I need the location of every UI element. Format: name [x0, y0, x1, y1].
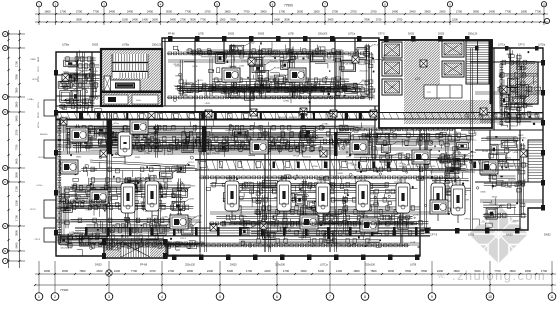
svg-text:L07Ba: L07Ba — [279, 229, 286, 231]
svg-text:CF7-5: CF7-5 — [167, 154, 174, 156]
left margin rotated labels — [38, 56, 40, 128]
svg-text:DN25: DN25 — [90, 103, 96, 105]
svg-text:DN32: DN32 — [343, 211, 349, 213]
svg-text:L07B: L07B — [239, 65, 244, 67]
svg-text:7800: 7800 — [405, 269, 412, 273]
fan at 250,109 — [250, 109, 257, 116]
svg-text:7700: 7700 — [15, 144, 19, 150]
top wall column blocks — [168, 36, 539, 51]
svg-text:250x120: 250x120 — [185, 263, 196, 267]
svg-text:2400: 2400 — [392, 9, 399, 13]
svg-text:5400: 5400 — [15, 115, 19, 121]
svg-text:CF7-5: CF7-5 — [188, 162, 195, 164]
svg-text:DN25: DN25 — [159, 205, 165, 207]
left dimension ticks and values — [8, 33, 21, 262]
svg-text:L07B: L07B — [288, 33, 294, 36]
top dimension ticks and values row2 — [38, 17, 545, 23]
svg-text:DN25: DN25 — [122, 219, 128, 221]
left margin leader texts — [28, 59, 49, 241]
svg-text:CF7-5: CF7-5 — [119, 129, 126, 132]
fan at 148,112 — [148, 112, 155, 119]
svg-text:320x200: 320x200 — [213, 58, 222, 60]
svg-text:1800: 1800 — [353, 269, 360, 273]
fan at 60,118 — [60, 118, 67, 125]
clutter zone 430,130 — [430, 132, 479, 225]
pipe band lower — [75, 227, 430, 236]
clutter zone 200,174 — [201, 175, 431, 249]
svg-text:L07Ba: L07Ba — [225, 130, 232, 132]
svg-text:L07Ba: L07Ba — [122, 44, 130, 47]
svg-text:L07B: L07B — [410, 242, 415, 244]
svg-text:250x120: 250x120 — [62, 239, 71, 241]
svg-text:DN32: DN32 — [76, 157, 82, 159]
fan at 260,222 — [260, 222, 267, 229]
svg-text:320x200: 320x200 — [397, 141, 406, 143]
elevator cell 5 — [442, 61, 464, 77]
svg-text:2600: 2600 — [152, 17, 158, 21]
svg-text:DN32: DN32 — [523, 68, 529, 70]
svg-text:1500: 1500 — [220, 17, 226, 21]
AHU at 90,190 — [90, 190, 108, 204]
svg-text:D: D — [4, 110, 6, 114]
fan at 320,150 — [320, 150, 327, 157]
svg-text:11: 11 — [550, 295, 554, 299]
AHU at 300,215 — [300, 215, 318, 229]
svg-text:L07B: L07B — [359, 58, 364, 60]
fan at 330,110 — [330, 110, 337, 117]
svg-text:250x120: 250x120 — [278, 117, 287, 119]
fan at 205,110 — [205, 110, 212, 117]
svg-text:L07a: L07a — [136, 100, 142, 102]
svg-text:7800: 7800 — [15, 87, 19, 93]
svg-text:1400: 1400 — [336, 269, 343, 273]
svg-text:L07Ba: L07Ba — [444, 166, 451, 168]
svg-text:320x200: 320x200 — [348, 233, 357, 235]
svg-text:L07B: L07B — [197, 216, 202, 218]
fan at 100,150 — [100, 150, 107, 157]
svg-text:DN25: DN25 — [273, 219, 279, 221]
bottom stair hatch — [105, 241, 166, 257]
svg-text:250x120: 250x120 — [272, 80, 281, 82]
top wall inner line — [162, 41, 377, 43]
svg-text:320x200: 320x200 — [174, 86, 183, 88]
svg-text:L07B: L07B — [532, 82, 537, 84]
svg-text:250x120: 250x120 — [505, 166, 514, 168]
svg-text:CF7-5: CF7-5 — [378, 33, 385, 36]
secondary corridor duct — [195, 160, 520, 171]
svg-text:DN32: DN32 — [130, 228, 136, 230]
svg-text:CF7-5: CF7-5 — [293, 58, 300, 60]
svg-text:L07Ba: L07Ba — [470, 152, 477, 154]
svg-text:320x200: 320x200 — [524, 105, 533, 107]
svg-text:DN32: DN32 — [185, 84, 191, 86]
svg-text:C: C — [4, 95, 6, 99]
svg-text:FP-68: FP-68 — [482, 138, 489, 140]
svg-text:5400: 5400 — [227, 269, 234, 273]
svg-text:DN32: DN32 — [249, 42, 255, 44]
svg-text:320x200: 320x200 — [80, 71, 89, 73]
svg-text:L07B: L07B — [189, 198, 194, 200]
fan at 480,108 — [480, 108, 487, 115]
interior wall horizontals — [56, 62, 543, 236]
svg-text:H: H — [4, 249, 6, 253]
core right heavy wall — [490, 40, 493, 104]
svg-text:B: B — [4, 46, 6, 50]
svg-text:CF7-5: CF7-5 — [509, 85, 516, 87]
svg-text:3: 3 — [108, 295, 110, 299]
AHU at 430,200 — [430, 200, 448, 214]
bottom stair end columns — [102, 239, 106, 245]
svg-text:CF7-5: CF7-5 — [317, 180, 324, 183]
AHU at 60,160 — [60, 160, 78, 174]
watermark logo — [469, 205, 528, 264]
fan at 420,60 — [420, 60, 427, 67]
right stair treads — [528, 140, 543, 182]
svg-text:5: 5 — [219, 295, 221, 299]
svg-text:L07Da: L07Da — [502, 184, 509, 186]
svg-text:320x200: 320x200 — [80, 57, 89, 59]
svg-text:1: 1 — [38, 295, 40, 299]
svg-text:DN32: DN32 — [330, 84, 336, 86]
AHU at 222,68 — [222, 68, 240, 82]
svg-text:DN25: DN25 — [354, 130, 360, 132]
svg-text:3000: 3000 — [166, 9, 173, 13]
fan at 248,58 — [248, 58, 255, 65]
svg-text:FP-68: FP-68 — [38, 76, 40, 82]
svg-text:DN32: DN32 — [544, 233, 551, 237]
AHU at 360,218 — [360, 218, 378, 232]
svg-text:2600: 2600 — [15, 101, 19, 107]
top dimension ticks and values row1 — [38, 9, 545, 15]
stair core hatch — [102, 50, 161, 105]
svg-text:DN32: DN32 — [201, 228, 207, 230]
svg-text:7: 7 — [329, 295, 331, 299]
stair core machine room — [110, 80, 140, 91]
svg-text:DN25: DN25 — [480, 192, 486, 194]
svg-text:CF7-5: CF7-5 — [372, 45, 379, 47]
svg-text:2400: 2400 — [328, 17, 334, 21]
svg-text:7800: 7800 — [230, 17, 236, 21]
svg-text:DN32: DN32 — [132, 249, 138, 251]
interior wall verticals — [56, 38, 520, 252]
fan coil unit at 152 — [145, 175, 159, 219]
svg-text:L07Ba: L07Ba — [177, 169, 184, 171]
svg-text:CF7-5: CF7-5 — [518, 44, 525, 47]
svg-text:1800: 1800 — [187, 269, 194, 273]
fan coil unit at 438 — [431, 177, 445, 221]
elevator core walls — [379, 40, 492, 128]
svg-text:7700: 7700 — [494, 269, 501, 273]
svg-text:FP-68: FP-68 — [38, 112, 40, 118]
svg-text:DN32: DN32 — [338, 173, 344, 175]
svg-text:1500: 1500 — [300, 269, 307, 273]
fan at 500,86 — [500, 86, 507, 93]
svg-text:7700: 7700 — [185, 9, 192, 13]
bottom wall column blocks — [172, 228, 520, 260]
svg-text:CF7-5: CF7-5 — [452, 182, 459, 185]
svg-text:L07B: L07B — [320, 128, 325, 130]
svg-text:L07B: L07B — [231, 140, 236, 142]
svg-text:1700: 1700 — [279, 9, 286, 13]
elevator lobby hatch — [404, 41, 491, 124]
AHU at 350,140 — [350, 140, 368, 154]
AHU at 250,140 — [250, 140, 268, 154]
svg-text:CF7-5: CF7-5 — [506, 74, 513, 76]
clutter zone 58,55 — [58, 50, 101, 115]
svg-text:L07Ba: L07Ba — [135, 220, 142, 222]
fan at 352,56 — [352, 56, 359, 63]
svg-text:1500: 1500 — [122, 17, 128, 21]
svg-text:CF7-5: CF7-5 — [397, 180, 404, 183]
svg-text:L07Da: L07Da — [538, 44, 546, 47]
svg-text:320x200: 320x200 — [188, 216, 197, 218]
svg-text:FP-68: FP-68 — [448, 140, 455, 142]
svg-text:L07Da: L07Da — [387, 208, 394, 210]
svg-text:DN32: DN32 — [513, 92, 519, 94]
svg-text:DN25: DN25 — [92, 44, 99, 47]
svg-text:5400: 5400 — [318, 269, 325, 273]
clutter zone 336,130 — [338, 128, 478, 182]
svg-text:L07Ba: L07Ba — [456, 166, 463, 168]
svg-text:3900: 3900 — [424, 9, 431, 13]
svg-text:3900: 3900 — [473, 9, 480, 13]
svg-text:1700: 1700 — [370, 9, 377, 13]
svg-text:L07Ca: L07Ca — [37, 185, 44, 187]
svg-text:L07Da: L07Da — [464, 172, 471, 174]
svg-text:7700: 7700 — [131, 269, 138, 273]
svg-text:2400: 2400 — [114, 269, 121, 273]
svg-text:L07B: L07B — [468, 233, 474, 237]
svg-text:CF7-5: CF7-5 — [35, 239, 41, 241]
svg-text:CF7-5: CF7-5 — [58, 100, 65, 102]
fan coil unit at 363 — [356, 175, 370, 219]
svg-text:L07Ba: L07Ba — [69, 232, 76, 234]
svg-text:CF7-5: CF7-5 — [197, 80, 204, 82]
svg-text:10: 10 — [488, 295, 492, 299]
fan at 300,108 — [300, 108, 307, 115]
svg-text:7700: 7700 — [200, 17, 206, 21]
svg-text:1400: 1400 — [142, 17, 148, 21]
svg-text:250x120: 250x120 — [269, 61, 278, 63]
svg-text:FP-68: FP-68 — [482, 151, 489, 153]
svg-text:1800: 1800 — [44, 269, 51, 273]
svg-text:5400: 5400 — [170, 17, 176, 21]
svg-text:2400: 2400 — [409, 9, 416, 13]
core 2 stair treads — [466, 41, 489, 84]
svg-text:L07B: L07B — [145, 229, 150, 231]
fan coil unit at 284 — [277, 175, 291, 219]
svg-text:3900: 3900 — [76, 17, 82, 21]
svg-text:L07Ca: L07Ca — [172, 166, 179, 168]
svg-text:DN32: DN32 — [485, 218, 491, 220]
svg-text:2600: 2600 — [439, 9, 446, 13]
svg-text:320x200: 320x200 — [40, 134, 49, 136]
hatched shaft right — [510, 62, 538, 104]
svg-text:L07B: L07B — [283, 214, 288, 216]
svg-text:L07B: L07B — [122, 226, 127, 228]
svg-text:1700: 1700 — [283, 269, 290, 273]
svg-text:DN25: DN25 — [92, 169, 98, 171]
svg-text:L07Ca: L07Ca — [264, 233, 271, 235]
svg-text:1700: 1700 — [15, 61, 19, 67]
svg-text:DN32: DN32 — [269, 76, 275, 78]
svg-text:2400: 2400 — [127, 9, 134, 13]
svg-text:1800: 1800 — [224, 9, 231, 13]
svg-text:DN32: DN32 — [30, 59, 36, 61]
svg-text:2400: 2400 — [264, 269, 271, 273]
AHU at 288,68 — [288, 68, 306, 82]
svg-text:1700: 1700 — [541, 269, 548, 273]
svg-text:L07Ca: L07Ca — [339, 141, 346, 143]
svg-text:1500: 1500 — [452, 17, 458, 21]
svg-text:DN32: DN32 — [38, 56, 40, 62]
svg-text:L07Ba: L07Ba — [322, 124, 329, 126]
top dimension chain line 1 — [35, 13, 548, 15]
left dimension chain line 1 — [8, 30, 10, 268]
svg-text:1700: 1700 — [15, 215, 19, 221]
svg-text:3000: 3000 — [284, 17, 290, 21]
svg-text:DN25: DN25 — [348, 163, 354, 165]
svg-text:250x120: 250x120 — [415, 166, 424, 168]
svg-text:250x120: 250x120 — [510, 126, 519, 128]
elevator cell 3 — [382, 79, 402, 95]
svg-text:G: G — [4, 224, 6, 228]
branch pipes — [56, 60, 543, 245]
bottom grid bubbles — [35, 261, 556, 300]
svg-text:1800: 1800 — [44, 9, 51, 13]
svg-text:L07Ba: L07Ba — [77, 79, 84, 81]
svg-text:250x120: 250x120 — [427, 166, 436, 168]
svg-text:7800: 7800 — [15, 74, 19, 80]
bottom stair treads — [121, 242, 150, 257]
svg-text:FP-68: FP-68 — [390, 160, 397, 162]
svg-text:L07B: L07B — [90, 62, 95, 64]
svg-text:7700: 7700 — [505, 9, 512, 13]
svg-text:2400: 2400 — [132, 17, 138, 21]
clutter zone 496,50 — [497, 50, 541, 127]
svg-text:2600: 2600 — [96, 269, 103, 273]
svg-text:L07Ca: L07Ca — [241, 61, 248, 63]
elevator cell 4 — [442, 41, 464, 57]
stair core walls — [101, 49, 162, 106]
svg-text:CF7-5: CF7-5 — [330, 192, 337, 194]
left dimension chain line 2 — [19, 30, 21, 268]
svg-text:L07Ca: L07Ca — [530, 94, 537, 96]
svg-text:320x200: 320x200 — [60, 248, 69, 250]
svg-text:250x120: 250x120 — [360, 71, 369, 73]
svg-text:DN25: DN25 — [358, 127, 364, 129]
svg-text:DN32: DN32 — [506, 95, 512, 97]
svg-text:L07Ca: L07Ca — [38, 101, 40, 108]
svg-text:1800: 1800 — [525, 269, 532, 273]
svg-text:7800: 7800 — [370, 269, 377, 273]
svg-text:6: 6 — [276, 295, 278, 299]
svg-text:FP-68: FP-68 — [140, 263, 148, 267]
left grid bubbles — [3, 31, 25, 263]
svg-text:7800: 7800 — [79, 269, 86, 273]
svg-text:A07: A07 — [176, 249, 181, 252]
svg-text:L07Ba: L07Ba — [506, 187, 513, 189]
right wall column blocks — [541, 60, 545, 211]
svg-text:320x200: 320x200 — [243, 182, 252, 184]
svg-text:9: 9 — [431, 295, 433, 299]
svg-text:FP-68: FP-68 — [301, 190, 308, 192]
svg-text:2600: 2600 — [297, 9, 304, 13]
svg-text:L07B: L07B — [69, 207, 74, 209]
diffuser rows — [167, 52, 366, 55]
svg-text:2700: 2700 — [332, 9, 339, 13]
svg-text:DN32: DN32 — [514, 221, 520, 223]
svg-text:2700: 2700 — [168, 269, 175, 273]
svg-text:L07Ba: L07Ba — [241, 216, 248, 218]
svg-text:DN25: DN25 — [506, 233, 513, 237]
svg-text:L07B: L07B — [94, 233, 99, 235]
svg-text:1700: 1700 — [60, 9, 67, 13]
svg-text:320x200: 320x200 — [362, 80, 371, 82]
svg-text:7800: 7800 — [421, 269, 428, 273]
svg-text:2400: 2400 — [489, 9, 496, 13]
svg-text:L07Ba: L07Ba — [140, 151, 147, 153]
svg-text:L07Ba: L07Ba — [28, 99, 35, 101]
fan at 370,110 — [370, 110, 377, 117]
svg-text:DN25: DN25 — [492, 196, 498, 198]
svg-text:CF7-5: CF7-5 — [471, 140, 478, 142]
svg-text:CF7-5: CF7-5 — [32, 79, 38, 81]
clutter zone 58,162 — [59, 162, 203, 256]
svg-text:DN32: DN32 — [408, 33, 415, 36]
svg-text:3900: 3900 — [15, 230, 19, 236]
fan coil unit mid-left — [118, 126, 132, 164]
svg-text:CF7-5: CF7-5 — [122, 180, 129, 183]
svg-text:320x200: 320x200 — [308, 191, 317, 193]
svg-text:2700: 2700 — [76, 9, 83, 13]
svg-text:77900: 77900 — [60, 288, 69, 292]
svg-text:A: A — [4, 32, 6, 36]
svg-text:L07Ba: L07Ba — [62, 44, 70, 47]
elevator cell 2 — [382, 60, 402, 76]
clutter zone 476,132 — [476, 135, 527, 227]
pipe risers — [83, 48, 473, 252]
stair treads core 1 — [112, 54, 148, 78]
svg-text:DN25: DN25 — [197, 222, 203, 224]
fan coil unit at 323 — [316, 177, 330, 221]
svg-text:FP-68: FP-68 — [464, 181, 471, 183]
svg-text:77900: 77900 — [284, 4, 293, 8]
svg-text:320x200: 320x200 — [365, 263, 376, 267]
svg-text:L07B: L07B — [395, 130, 400, 132]
svg-text:5400: 5400 — [474, 269, 481, 273]
bottom wall labels — [95, 233, 551, 267]
svg-text:DN25: DN25 — [257, 92, 263, 94]
svg-text:CF7-5: CF7-5 — [464, 219, 471, 221]
fan at 520,150 — [520, 150, 527, 157]
svg-text:DN25: DN25 — [438, 33, 445, 36]
svg-text:DN32: DN32 — [67, 103, 73, 105]
svg-text:320x200: 320x200 — [358, 64, 367, 66]
fan coil unit at 403 — [396, 177, 410, 221]
main corridor duct dark band — [56, 112, 377, 121]
AHU at 170,215 — [170, 215, 188, 229]
svg-text:2400: 2400 — [147, 9, 154, 13]
svg-text:250x120: 250x120 — [90, 71, 99, 73]
svg-text:CF7-5: CF7-5 — [38, 66, 40, 72]
svg-text:1800: 1800 — [453, 269, 460, 273]
AHU at 480,160 — [480, 160, 498, 174]
svg-text:250x120: 250x120 — [109, 187, 118, 189]
AHU at 412,150 — [412, 150, 430, 164]
elevator cell 1 — [382, 42, 402, 58]
svg-text:320x200: 320x200 — [318, 33, 328, 36]
